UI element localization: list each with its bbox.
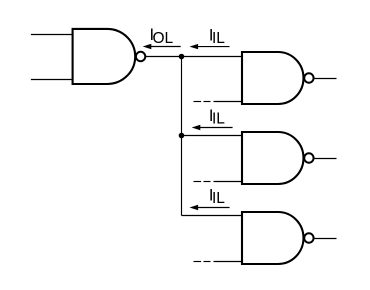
svg-text:IIL: IIL (209, 186, 225, 207)
U4 output wire (315, 238, 337, 240)
U2 lower input dashed wire (194, 101, 243, 103)
NAND gate U1 inverter bubble (136, 52, 145, 61)
current arrow IOL (143, 44, 181, 49)
NAND gate U4 load3 body (242, 212, 304, 264)
U1 output wire to node (146, 56, 242, 58)
U3 output wire (315, 158, 337, 160)
svg-text:IIL: IIL (209, 107, 225, 128)
U4 lower input dashed wire (194, 261, 243, 263)
current arrow IIL middle (192, 125, 233, 130)
NAND gate U3 load2 body (242, 132, 304, 184)
node junction J1 (179, 54, 185, 60)
current arrow IIL bottom (190, 205, 230, 210)
NAND gate U1 driver body (73, 29, 136, 84)
NAND gate U3 inverter bubble (304, 153, 313, 162)
svg-text:IIL: IIL (209, 26, 225, 47)
U2 output wire (315, 78, 337, 80)
U3 lower input dashed wire (194, 181, 243, 183)
NAND gate U4 inverter bubble (304, 233, 313, 242)
wire corner to U4 input (182, 215, 243, 217)
current arrow IIL top (190, 44, 230, 49)
bus vertical wire (181, 57, 183, 216)
U1 input A wire (31, 34, 73, 36)
wire J2 to U3 input (182, 135, 243, 137)
node junction J2 (179, 133, 185, 139)
NAND gate U2 inverter bubble (304, 73, 313, 82)
NAND gate U2 load1 body (242, 52, 304, 104)
U1 input B wire (31, 79, 73, 81)
svg-text:IOL: IOL (150, 26, 174, 47)
